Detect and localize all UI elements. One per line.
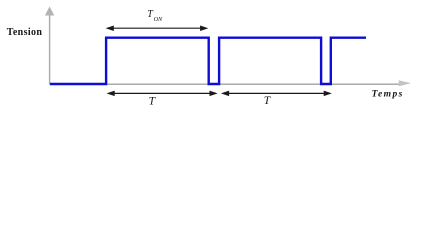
svg-text:Temps: Temps <box>372 90 404 100</box>
svg-text:Tension: Tension <box>7 27 43 38</box>
svg-text:ON: ON <box>154 16 163 23</box>
